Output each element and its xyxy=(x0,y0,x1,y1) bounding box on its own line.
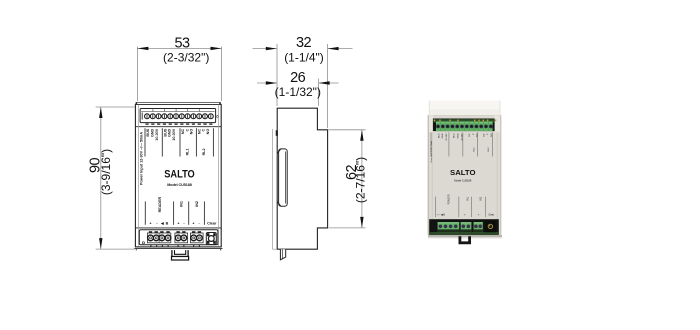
DIN rail clip side view xyxy=(277,149,287,206)
terminal cover bottom line xyxy=(135,126,221,128)
photo top label dividers xyxy=(431,132,492,156)
small hole xyxy=(142,242,144,244)
svg-text:26: 26 xyxy=(290,70,305,86)
base line xyxy=(134,249,222,251)
IN2 terminal group xyxy=(190,231,203,243)
svg-text:(1-1/32"): (1-1/32") xyxy=(275,85,321,99)
wire slots under screws xyxy=(151,245,200,247)
svg-text:Power Input 12-30V ~/--- 50mA: Power Input 12-30V ~/--- 50mA xyxy=(140,132,144,185)
DIN clip front view xyxy=(172,250,189,260)
svg-text:NC: NC xyxy=(469,133,471,137)
clear button front view xyxy=(206,233,216,245)
svg-text:NO: NO xyxy=(206,129,210,135)
block top edge line xyxy=(141,111,214,113)
svg-text:(2-7/16"): (2-7/16") xyxy=(354,157,368,203)
svg-text:READER: READER xyxy=(158,196,162,212)
body edges xyxy=(428,115,429,235)
svg-text:+: + xyxy=(149,222,151,226)
tick marks above screws xyxy=(152,109,154,111)
svg-text:+ - ◀ B: + - ◀ B xyxy=(437,213,445,216)
clear button photo xyxy=(485,221,495,233)
bottom pcb strip xyxy=(430,232,498,235)
cover side inner walls xyxy=(137,105,139,247)
svg-text:Clear: Clear xyxy=(207,222,217,226)
svg-text:Clear: Clear xyxy=(488,213,494,216)
svg-text:IN1: IN1 xyxy=(180,201,184,207)
top dark recess xyxy=(433,119,495,132)
bottom terminal cover xyxy=(139,230,218,245)
svg-text:Model CU5188: Model CU5188 xyxy=(454,179,472,183)
svg-text:BUS: BUS xyxy=(439,133,441,138)
svg-text:+ -: + - xyxy=(464,213,467,216)
bottom green terminal IN2 xyxy=(474,222,483,232)
bottom cover top line xyxy=(135,227,221,229)
front view body outline xyxy=(135,103,221,247)
svg-text:32: 32 xyxy=(296,35,311,51)
reader terminal group xyxy=(147,231,170,243)
dimension 26 xyxy=(257,70,339,106)
top terminal screw holes xyxy=(436,125,493,129)
svg-text:BUS: BUS xyxy=(454,133,456,138)
bottom green terminal reader xyxy=(438,222,460,232)
cap corner marks xyxy=(136,102,138,104)
photo bottom labels xyxy=(437,194,494,216)
svg-text:(3-9/16"): (3-9/16") xyxy=(99,149,113,195)
svg-text:RL2: RL2 xyxy=(202,148,206,155)
body bottom shadow xyxy=(428,235,502,237)
dimension 53 top xyxy=(137,35,221,101)
svg-text:Power Input 12-30V 50mA: Power Input 12-30V 50mA xyxy=(430,141,433,163)
svg-text:10-30V: 10-30V xyxy=(446,133,448,141)
svg-text:GND: GND xyxy=(168,128,172,137)
svg-text:IN2: IN2 xyxy=(480,196,483,200)
bottom label dividers xyxy=(145,201,204,224)
svg-text:B: B xyxy=(166,222,169,226)
tiny screw labels xyxy=(145,123,212,125)
left shoulder xyxy=(428,115,433,132)
svg-text:+: + xyxy=(177,222,179,226)
bottom clip tab side view xyxy=(280,249,285,260)
back plate thin line xyxy=(271,129,273,249)
dimension 90 left xyxy=(87,107,135,249)
svg-text:IN1: IN1 xyxy=(466,196,469,200)
svg-text:10-30V: 10-30V xyxy=(461,133,463,141)
top terminal screws x12 xyxy=(145,114,214,119)
pcb solder dots xyxy=(434,120,497,122)
dimension 62 xyxy=(329,130,368,228)
svg-text:10-30V: 10-30V xyxy=(155,128,159,140)
bottom polarity symbols xyxy=(149,221,217,225)
svg-text:+: + xyxy=(192,222,194,226)
right shoulder xyxy=(495,115,502,132)
svg-text:(2-3/32"): (2-3/32") xyxy=(163,51,209,65)
svg-text:GND: GND xyxy=(442,133,444,138)
svg-text:10-30V: 10-30V xyxy=(172,128,176,140)
rotated terminal labels xyxy=(146,128,210,155)
svg-text:SALTO: SALTO xyxy=(450,168,476,177)
svg-text:READER: READER xyxy=(447,194,450,204)
pcb strip xyxy=(434,119,495,122)
svg-text:NO: NO xyxy=(491,133,493,137)
svg-text:IN2: IN2 xyxy=(195,201,199,207)
bottom dark recess xyxy=(429,219,499,235)
side view body outline xyxy=(277,108,327,249)
photo tiny top labels xyxy=(430,133,493,163)
svg-text:SALTO: SALTO xyxy=(164,168,195,180)
svg-text:RL1: RL1 xyxy=(186,148,190,155)
svg-text:GND: GND xyxy=(150,128,154,137)
terminal numbering mark xyxy=(142,113,143,120)
svg-text:NO: NO xyxy=(189,129,193,135)
bottom green terminal IN1 xyxy=(461,222,472,232)
svg-text:NO: NO xyxy=(476,133,478,137)
dimension 32 xyxy=(253,35,353,128)
top cap xyxy=(136,103,220,105)
svg-text:GND: GND xyxy=(457,133,459,138)
photo bottom label dividers xyxy=(436,197,486,217)
top terminal block xyxy=(136,102,221,246)
top screw slots xyxy=(147,115,211,118)
photo body face xyxy=(428,115,502,235)
svg-text:NC: NC xyxy=(484,133,486,137)
top green terminal block xyxy=(436,122,493,132)
photo DIN clip tab xyxy=(460,236,470,243)
svg-text:(1-1/4"): (1-1/4") xyxy=(284,51,324,65)
photo back plate xyxy=(429,101,501,111)
svg-text:53: 53 xyxy=(175,35,190,51)
svg-text:Model CU5188: Model CU5188 xyxy=(167,183,192,187)
small circle right of block xyxy=(217,116,219,118)
top rail hook xyxy=(276,130,278,136)
top label dividers xyxy=(145,128,213,156)
IN1 terminal group xyxy=(175,231,188,243)
svg-text:+ -: + - xyxy=(478,213,481,216)
